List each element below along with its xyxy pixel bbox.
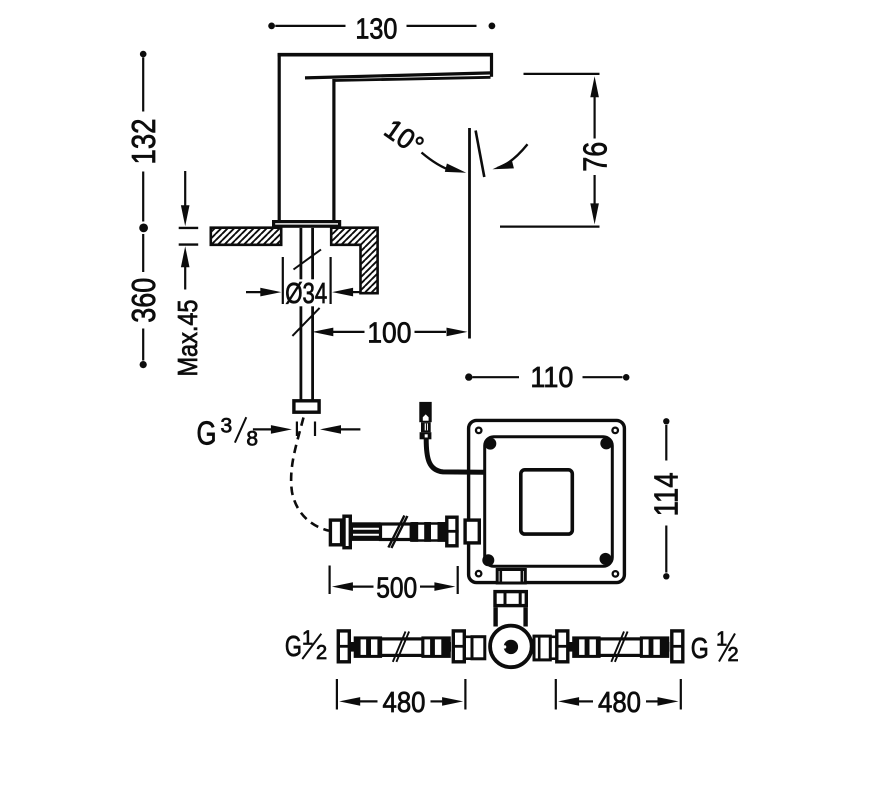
svg-text:G: G (691, 633, 709, 665)
pipe break slash upper (294, 250, 322, 270)
faucet spout underside (305, 73, 492, 78)
left G1/2 hose (338, 631, 349, 662)
svg-text:110: 110 (530, 362, 573, 394)
svg-text:G: G (197, 415, 217, 452)
dim 130 left dot (268, 23, 275, 30)
dim 76 bottom extension line (500, 226, 600, 228)
control box outer body (469, 420, 625, 582)
dim 130 right dot (489, 23, 496, 30)
svg-text:360: 360 (125, 278, 162, 323)
angle arc right (498, 144, 528, 168)
hose500 break slash (388, 516, 404, 548)
right G1/2 hose (557, 631, 568, 662)
svg-text:Max.45: Max.45 (172, 300, 203, 377)
dim 76 lower arrow (590, 203, 599, 224)
dim Max.45 upper arrow (184, 171, 186, 206)
hose500 braid band (352, 522, 381, 541)
corner screws (475, 427, 483, 435)
supply pipe below deck (299, 228, 302, 400)
G3/8 dim left arrow (253, 428, 272, 430)
dim 100 left arrow (312, 328, 333, 337)
countertop right slab with front return (hatched) (331, 228, 377, 294)
dim 114 line (663, 418, 669, 424)
dim 500 ticks (329, 566, 331, 595)
countertop left slab (hatched) (211, 228, 281, 245)
tee left port (472, 637, 485, 659)
hose500 collar (344, 516, 350, 548)
dim O34 left arrow (246, 291, 264, 293)
dim 132 vertical line (140, 51, 147, 58)
svg-text:100: 100 (367, 317, 411, 349)
control box inner frame (485, 437, 613, 567)
dim 100 right arrow (415, 331, 447, 333)
angle arc left (422, 153, 453, 171)
svg-text:114: 114 (648, 472, 685, 516)
dim O34 right arrow (332, 288, 353, 297)
water stream reference line (468, 128, 471, 339)
outlet nut (495, 592, 526, 606)
svg-text:480: 480 (598, 687, 641, 719)
sensor window (521, 470, 573, 534)
hose500 ferrules (411, 524, 446, 541)
tee body circle (490, 626, 532, 668)
svg-text:130: 130 (355, 14, 397, 46)
G3/8 thread ticks (296, 422, 298, 437)
inner frame corner dots (484, 438, 496, 450)
dim mid dot (139, 224, 148, 233)
dim Max.45 ticks (179, 227, 199, 229)
svg-text:G: G (285, 631, 302, 663)
svg-text:132: 132 (125, 119, 162, 165)
dim O34 text (284, 279, 328, 306)
faucet base flange (274, 222, 340, 227)
hose500 end cap (330, 520, 341, 545)
dim 360 vertical line (142, 234, 144, 272)
dim 76 upper arrow (590, 76, 599, 97)
svg-text:Ø34: Ø34 (285, 278, 327, 310)
faucet body inner edge (332, 79, 335, 221)
dim 500 left arrow (332, 582, 353, 591)
sensor cable (426, 439, 484, 472)
flexible connection hose (dashed) (291, 418, 329, 531)
svg-text:76: 76 (576, 142, 613, 172)
hose500 box connector (465, 520, 479, 543)
dim 360 bottom dot (140, 361, 147, 368)
svg-text:480: 480 (383, 687, 426, 719)
svg-text:2: 2 (727, 644, 738, 666)
dim 480 left (336, 679, 338, 710)
faucet spout top edge (278, 53, 493, 57)
dim 76 top extension line (524, 73, 600, 75)
svg-text:2: 2 (316, 642, 327, 664)
G3/8 outlet nut (294, 401, 319, 412)
faucet spout lower front line (334, 77, 491, 80)
dim Max.45 lower arrow (181, 246, 190, 267)
G3/8 dim right arrow (320, 425, 341, 434)
svg-text:8: 8 (246, 428, 258, 451)
dim 110 line (465, 373, 472, 380)
hose500 tube (381, 524, 412, 540)
svg-text:3: 3 (221, 414, 233, 437)
tee right port (534, 636, 550, 660)
faucet body left edge (278, 53, 281, 220)
box outlet tab (497, 570, 525, 584)
dim 130 line (275, 25, 345, 27)
sensor cable plug (silhouette) (419, 402, 431, 422)
dim 500 right arrow (420, 585, 435, 587)
faucet spout right (outlet) edge (490, 53, 493, 77)
outlet neck (493, 607, 497, 626)
pipe break slash lower (292, 308, 319, 336)
dim 480 right (555, 679, 557, 710)
tee center dot (504, 640, 518, 654)
svg-text:500: 500 (376, 572, 417, 604)
hose500 nut (447, 517, 457, 546)
dim O34 extension ticks (282, 257, 284, 304)
svg-text:1: 1 (716, 629, 727, 651)
stream 10deg tilt line (476, 131, 485, 178)
